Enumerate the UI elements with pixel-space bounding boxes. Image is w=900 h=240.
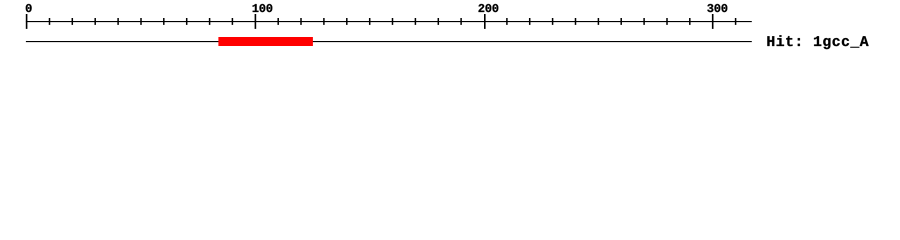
ruler major tick 300 xyxy=(712,14,714,29)
ruler minor ticks (every 10 units) xyxy=(50,18,736,25)
ruler axis line xyxy=(26,21,752,23)
ruler major tick 200 xyxy=(484,14,486,29)
ruler major tick 0 xyxy=(26,14,28,29)
ruler label 300 xyxy=(707,4,727,12)
ruler label 0 xyxy=(26,4,32,12)
ruler label 100 xyxy=(253,4,273,12)
ruler major tick 100 xyxy=(254,14,256,29)
ruler label 200 xyxy=(479,4,499,12)
query line (full sequence) xyxy=(26,41,752,43)
hit label "Hit: 1gcc_A" xyxy=(767,35,868,49)
hit bar (red, aligned region) xyxy=(218,37,313,46)
